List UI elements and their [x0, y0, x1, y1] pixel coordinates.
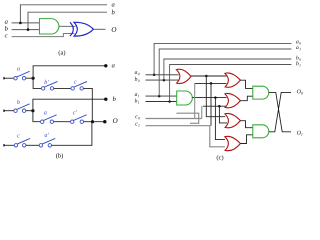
node on G2 output [214, 96, 217, 99]
and-gate U1 (green) [40, 19, 59, 34]
wire M3 out step down to R2 upper [240, 121, 252, 128]
label a1 right [296, 46, 300, 50]
wire c0 (grey) horizontal [146, 118, 202, 120]
wire: input c stepping up into XOR [12, 34, 75, 37]
wire row2 to junction [26, 110, 33, 112]
node junction bus/O [91, 120, 94, 123]
wire branch to right bus [84, 88, 93, 121]
switch c' [71, 120, 74, 123]
wire b0 left stub [146, 79, 179, 81]
wire c0 riser to M2 lower [201, 106, 203, 118]
wire: second feed-through b (fig a) [28, 12, 107, 29]
switch a (lower branch) [41, 120, 44, 123]
wire M2 out step up to R1 lower [240, 96, 252, 101]
node on G1 output [205, 75, 208, 78]
switch b (row2) [14, 109, 17, 112]
label a right (fig a) [112, 3, 115, 6]
wire row3 mid [26, 144, 39, 146]
wire M1 out step down to R1 upper [240, 80, 252, 88]
label terminal O (fig b) [113, 118, 118, 123]
wire R2 output crossing up to O0 [269, 92, 291, 131]
wire row3 to bus up [52, 122, 92, 146]
switch a' (row3) [39, 144, 42, 147]
label b switch row2 [17, 100, 20, 104]
label b0 right [296, 56, 301, 61]
wire row2 stub [6, 110, 14, 112]
wire: XOR output O [93, 28, 105, 30]
label c1 left [135, 123, 139, 127]
label terminal b (fig b) [113, 96, 116, 101]
wire row1 to junction [26, 77, 33, 79]
wire between b' and c [54, 87, 71, 89]
node junction row1 [31, 77, 34, 80]
wire a0 left stub [146, 74, 179, 76]
node: junction b [27, 28, 30, 31]
wire row2 down to a c' branch [33, 111, 41, 122]
and-gate G2 (green) inputs a1 b1 [177, 91, 193, 105]
label b1 left [135, 99, 139, 104]
wire c1 (grey) to M4 lower [146, 126, 225, 147]
wire R1 output crossing down to O1 [269, 93, 291, 132]
wire c0 riser to M1 lower [194, 83, 196, 118]
label c switch top branch [74, 80, 77, 83]
wire row2 up to terminal b [33, 99, 106, 111]
label b right (fig a) [112, 10, 115, 15]
node junction row2 [31, 109, 34, 112]
switch b' [41, 87, 44, 90]
wire M2 lower input line [203, 105, 227, 107]
wire b1 riser and long wire [170, 65, 292, 102]
caption (b) [56, 153, 63, 159]
label b left (fig a) [5, 26, 8, 31]
or-gate M3 (red) [225, 113, 241, 127]
node terminal O [103, 120, 106, 123]
node terminal b [104, 98, 107, 101]
or-gate G1 (red) inputs a0 b0 [176, 69, 191, 83]
label a1 left [135, 93, 139, 97]
wire G1 output to M1 upper input [191, 75, 227, 77]
wire: AND output to XOR [59, 25, 76, 27]
label b1 right [296, 61, 300, 66]
label O output (fig a) [112, 27, 117, 32]
wire branch to O [84, 121, 105, 123]
node on M1 lower line [210, 82, 213, 85]
wire V3 drop from M1 lower to M3 lower line [210, 83, 212, 125]
label terminal a (fig b) [112, 64, 115, 67]
wire row1 down to b' c branch [33, 78, 41, 88]
node on M2 lower line [218, 105, 221, 108]
wire row1 stub [6, 77, 14, 79]
label O0 output [297, 89, 303, 94]
wire: input b to AND [12, 29, 40, 31]
input arrow row3 [3, 144, 6, 147]
wire grey staple to M3 lower [177, 113, 199, 123]
node terminal a [104, 64, 107, 67]
node b1 junction [168, 100, 171, 103]
wire drop from M2 lower node to M3 lower input [219, 106, 227, 123]
caption (c) [217, 155, 224, 161]
label c switch row3 [17, 134, 20, 137]
and-gate R2 (green) [253, 125, 269, 138]
wire a1 riser and long wire [159, 49, 291, 96]
xor-gate U2 (blue) leading double arc [70, 22, 73, 36]
wire: input a to AND [12, 22, 40, 24]
wire V4 drop from G2 out to M4 upper input [215, 98, 225, 140]
label c0 left [135, 116, 139, 120]
or-gate M1 (red) [225, 73, 241, 87]
node a0 junction [153, 74, 156, 77]
label a0 right [296, 41, 301, 45]
wire M1 lower input line [195, 82, 227, 84]
input arrow row2 [3, 109, 6, 112]
wire a1 left stub [146, 95, 177, 97]
wire G2 output to M2 upper input [192, 97, 226, 99]
label c left (fig a) [5, 34, 8, 37]
label a' switch row3 [45, 133, 49, 137]
input arrow row1 [3, 77, 6, 80]
wire V1 drop from G1 out to M3 upper input [206, 76, 225, 117]
switch a (row1) [14, 77, 17, 80]
switch c (row3) [14, 144, 17, 147]
node b0 junction [163, 79, 166, 82]
and-gate R1 (green) [253, 86, 269, 99]
label a0 left [135, 71, 140, 75]
label b0 left [135, 77, 140, 82]
node a1 junction [158, 95, 161, 98]
label a left (fig a) [5, 20, 8, 23]
or-gate M4 (red) [225, 136, 241, 150]
label c' switch [73, 110, 77, 114]
wire a0 riser and long top wire [154, 43, 291, 74]
wire between a and c' [54, 121, 71, 123]
node: junction a [19, 22, 22, 25]
label b' switch [44, 80, 48, 84]
wire row1 up to terminal a [33, 66, 106, 78]
wire b1 left stub [146, 101, 177, 103]
label O1 output [297, 131, 303, 136]
caption (a) [59, 50, 66, 56]
wire: top feed-through a (fig a) [20, 5, 107, 23]
xor-gate U2 (blue) body [74, 22, 93, 36]
label a switch row1 [17, 67, 20, 70]
switch c (top branch) [71, 87, 74, 90]
wire row3 stub [6, 144, 14, 146]
or-gate M2 (red) [225, 93, 241, 107]
wire M4 out step up to R2 lower [240, 135, 252, 144]
label a switch lower branch [44, 111, 47, 114]
wire b0 riser and long wire [164, 59, 292, 80]
